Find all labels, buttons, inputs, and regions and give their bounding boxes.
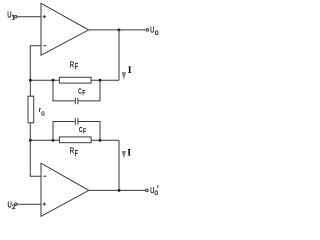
node junction left end of bottom feedback	[29, 139, 32, 142]
svg-text:1: 1	[12, 15, 16, 22]
label CF (bottom)	[79, 125, 86, 136]
wire rG bottom connection	[29, 123, 31, 141]
wire rG top connection	[29, 80, 31, 96]
svg-text:U: U	[150, 26, 154, 35]
svg-text:R: R	[70, 60, 74, 70]
label RF (bottom)	[70, 146, 78, 158]
wire U1 to op-amp + input	[17, 16, 41, 18]
wire top CF branch	[53, 80, 75, 101]
svg-text:I: I	[128, 65, 132, 76]
label RF (top)	[70, 60, 78, 72]
resistor rG	[28, 96, 34, 123]
svg-text:F: F	[75, 62, 79, 71]
svg-text:F: F	[75, 149, 79, 158]
label rG	[39, 107, 45, 117]
label U0	[150, 26, 159, 37]
wire top feedback rail	[30, 79, 119, 81]
label I (bottom)	[127, 147, 131, 158]
label I (top)	[128, 65, 132, 76]
node U2 input terminal	[15, 203, 17, 205]
label CF (top)	[78, 86, 86, 97]
svg-text:F: F	[82, 88, 85, 97]
svg-text:F: F	[83, 127, 86, 136]
svg-text:0: 0	[154, 190, 158, 197]
wire op-amp A1 inverting input	[30, 46, 41, 80]
label prime mark on U0'	[157, 185, 160, 188]
svg-text:R: R	[70, 146, 74, 156]
wire bottom CF branch	[53, 122, 75, 141]
node junction top CF left	[52, 79, 55, 82]
svg-text:G: G	[41, 111, 45, 117]
current arrow I (top)	[122, 72, 127, 80]
label U1	[7, 11, 15, 22]
node U1 input terminal	[15, 16, 17, 18]
capacitor CF (top)	[75, 98, 78, 105]
wire op-amp A2 output to U0'	[89, 189, 146, 191]
label U0 prime	[150, 186, 158, 197]
node junction left end of top feedback	[29, 79, 32, 82]
node junction at top output	[117, 28, 120, 31]
node junction top CF right	[99, 79, 102, 82]
wire bottom feedback down to output	[118, 140, 120, 190]
current arrow I (bottom)	[122, 151, 127, 159]
wire op-amp A2 inverting input	[30, 140, 41, 176]
op-amp A1 (top)	[41, 3, 89, 55]
node U0' output terminal	[146, 189, 149, 192]
wire output down to feedback (top)	[118, 30, 120, 80]
wire U2 to op-amp + input	[17, 203, 41, 205]
node U0 output terminal	[146, 29, 149, 32]
capacitor CF (bottom)	[75, 118, 78, 125]
wire top CF branch right	[78, 80, 100, 101]
svg-text:I: I	[127, 147, 131, 158]
resistor RF (bottom)	[59, 137, 91, 143]
resistor RF (top)	[59, 77, 91, 83]
node junction bottom CF right	[99, 139, 102, 142]
label U2	[8, 201, 16, 211]
wire op-amp A1 output to U0	[89, 29, 146, 31]
wire bottom CF branch right	[78, 122, 100, 141]
node junction bottom CF left	[52, 139, 55, 142]
svg-text:2: 2	[12, 204, 16, 211]
svg-text:0: 0	[155, 30, 159, 37]
op-amp A2 (bottom)	[41, 163, 89, 216]
node junction at bottom output	[118, 189, 121, 192]
wire bottom feedback rail	[30, 139, 119, 141]
